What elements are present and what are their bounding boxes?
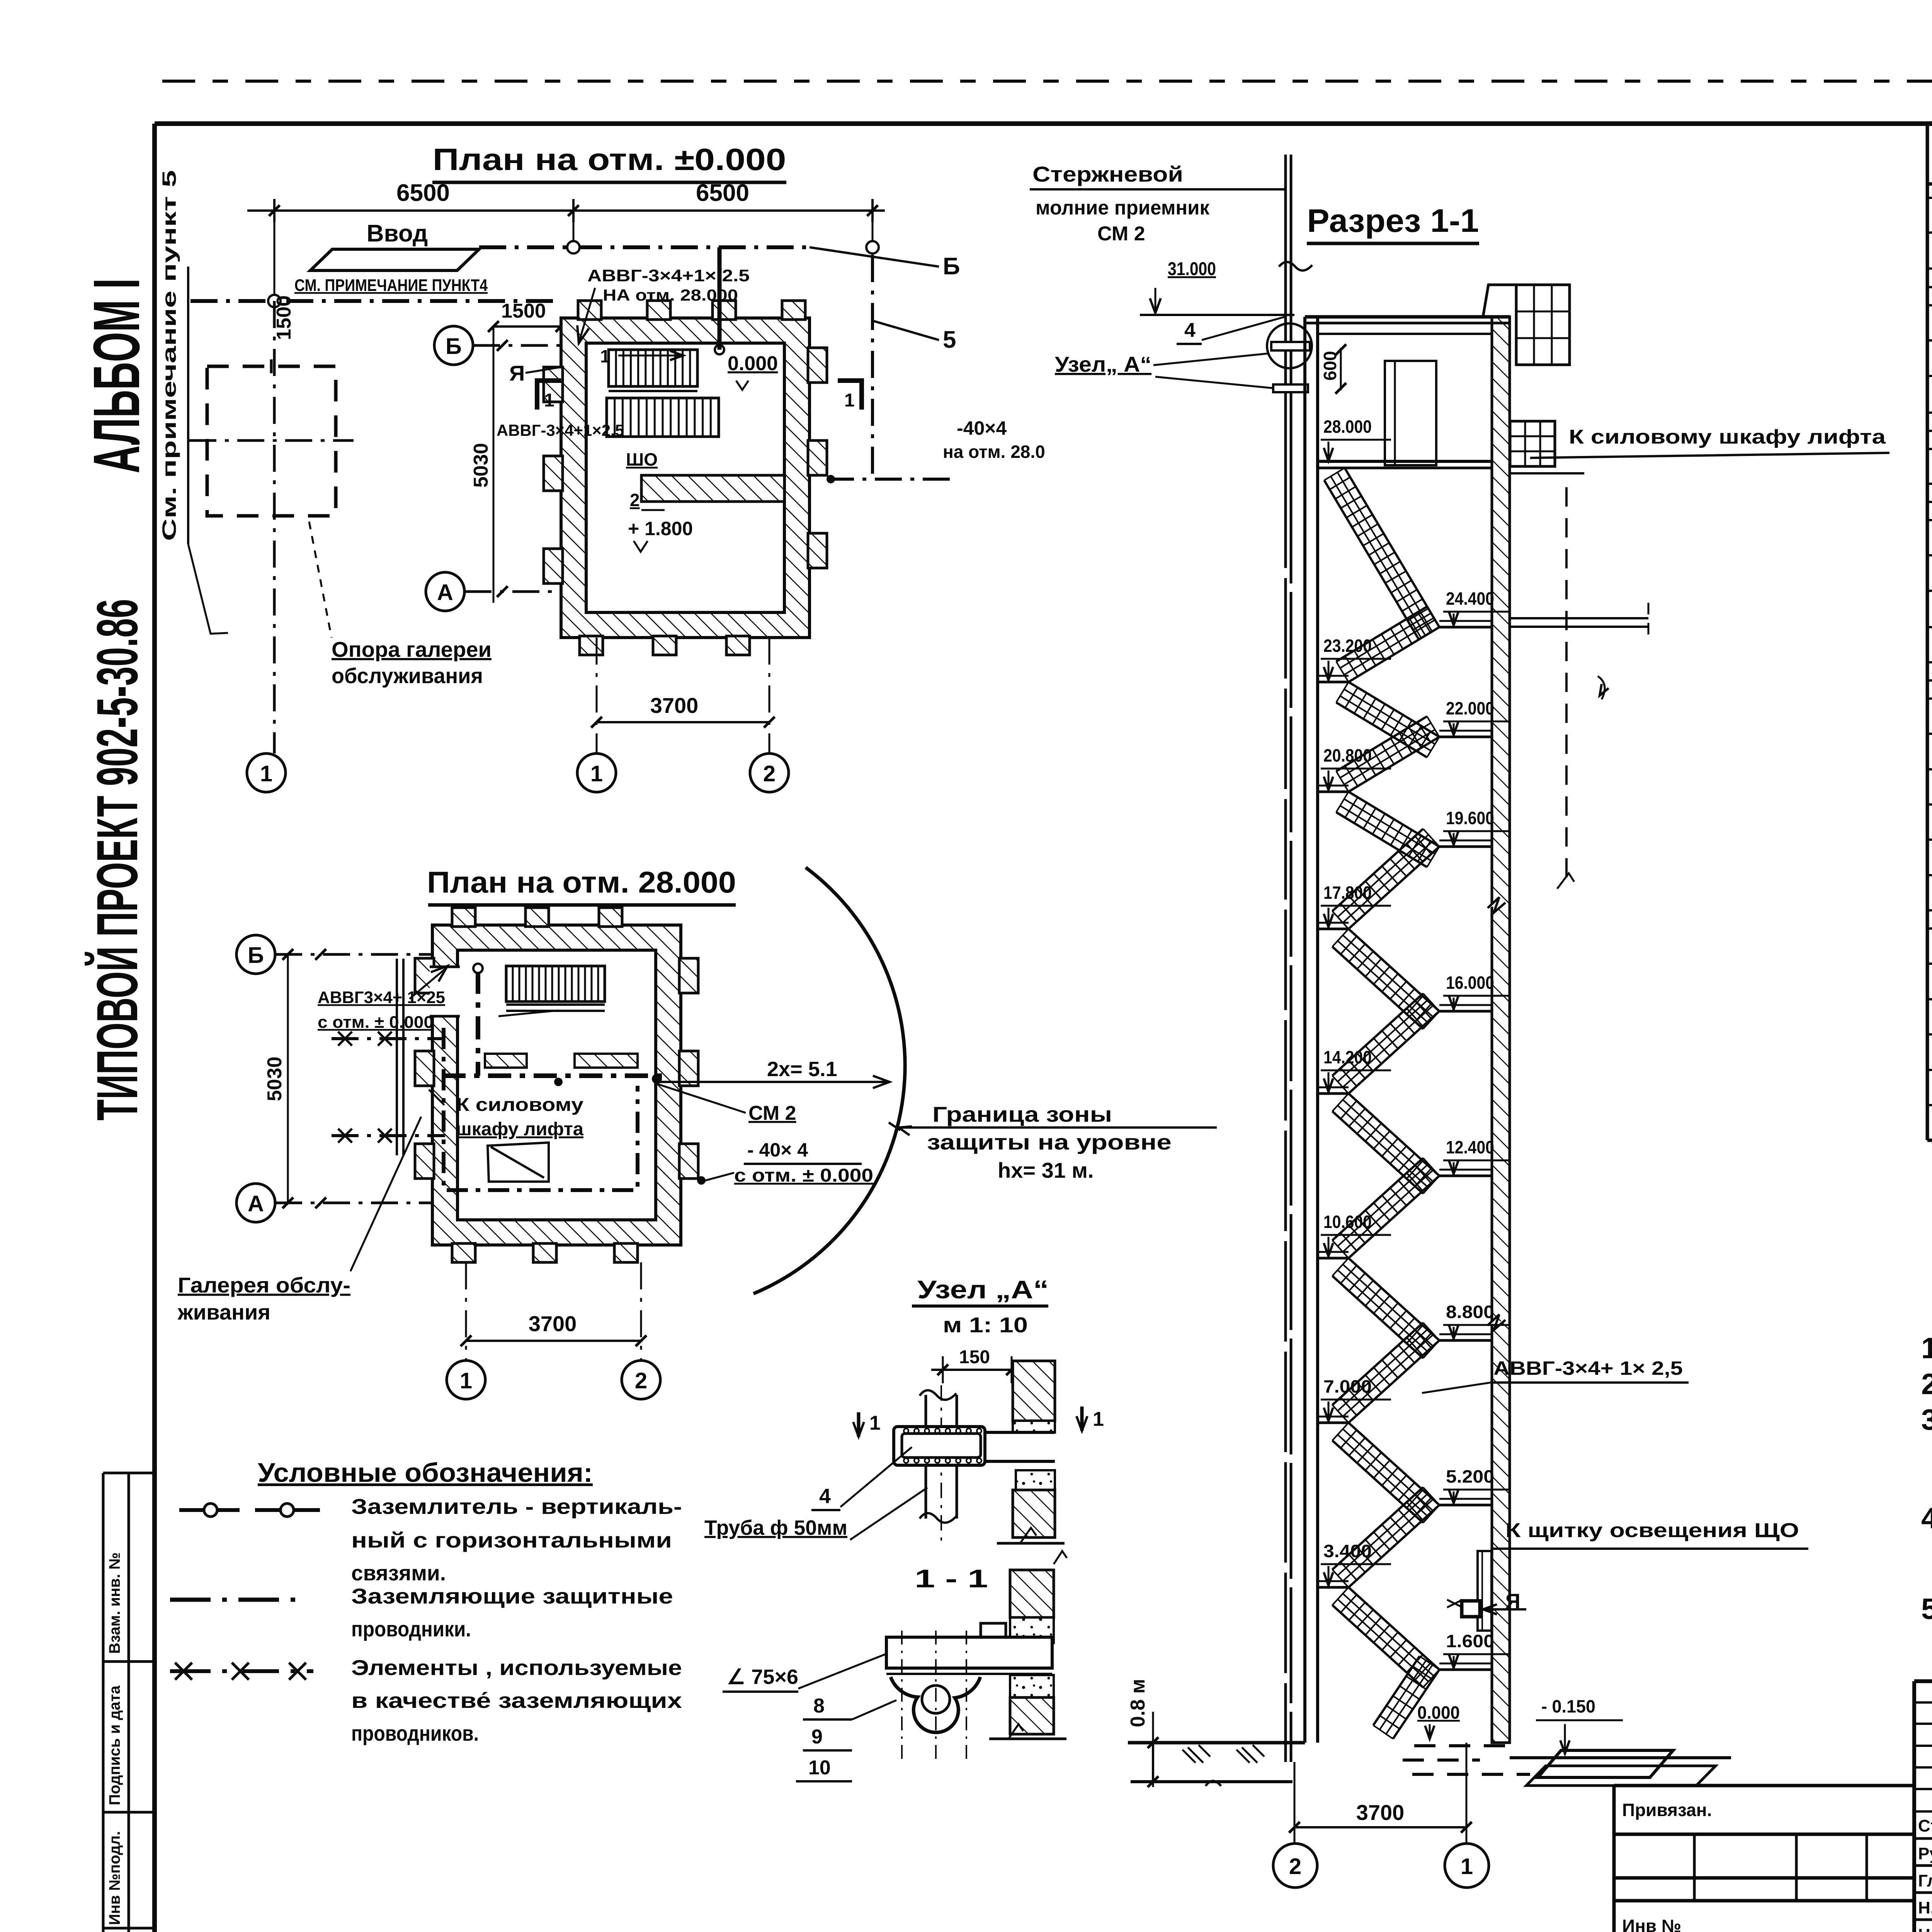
plan2 bottom dim 3700 <box>465 1262 467 1361</box>
svg-text:1: 1 <box>600 346 610 366</box>
uzel A slab <box>894 1432 1055 1461</box>
svg-text:Опора галереи: Опора галереи <box>332 637 492 662</box>
roof top grid <box>1516 285 1570 365</box>
section cut marks plan1 <box>537 381 561 410</box>
uzel A wall top <box>1013 1361 1055 1421</box>
left margin stamp boxes <box>103 1473 155 1932</box>
svg-text:Условные обозначения:: Условные обозначения: <box>258 1458 593 1488</box>
roof parapet right <box>1483 285 1516 317</box>
svg-text:Стержневой: Стержневой <box>1032 162 1183 186</box>
svg-text:24.400: 24.400 <box>1446 588 1494 609</box>
svg-text:Взам. инв. №: Взам. инв. № <box>106 1553 123 1654</box>
fill-in parallelogram near title block <box>1538 1750 1673 1777</box>
svg-text:СМ. ПРИМЕЧАНИЕ ПУНКТ4: СМ. ПРИМЕЧАНИЕ ПУНКТ4 <box>294 276 488 295</box>
svg-text:защиты на уровне: защиты на уровне <box>927 1130 1172 1154</box>
svg-text:4.: 4. <box>1921 1502 1932 1535</box>
stairs <box>1324 468 1439 639</box>
svg-text:17.800: 17.800 <box>1323 883 1372 903</box>
svg-text:∠ 75×6: ∠ 75×6 <box>727 1665 798 1689</box>
svg-text:- 40× 4: - 40× 4 <box>747 1139 808 1161</box>
svg-text:Рук. гр.: Рук. гр. <box>1918 1844 1932 1863</box>
svg-text:1: 1 <box>544 390 554 411</box>
axis circles B A plan1 <box>434 326 473 365</box>
svg-text:2: 2 <box>630 490 640 510</box>
svg-text:4: 4 <box>819 1485 831 1508</box>
svg-text:1: 1 <box>460 1368 472 1393</box>
vvod axis dash-dot over building <box>479 245 810 249</box>
svg-text:5: 5 <box>943 327 956 353</box>
building plan 28.000 <box>432 925 681 1245</box>
elevator shaft top <box>1385 361 1436 465</box>
svg-text:-40×4: -40×4 <box>957 417 1007 439</box>
gallery 28.000 right grid <box>1510 421 1555 466</box>
uzel A pipe <box>925 1395 927 1519</box>
plan2 gallery door opening in left wall <box>430 967 460 1016</box>
svg-text:Узел„ А“: Узел„ А“ <box>1055 352 1151 376</box>
svg-text:м 1: 10: м 1: 10 <box>943 1313 1028 1337</box>
svg-text:5030: 5030 <box>470 443 492 488</box>
svg-text:9: 9 <box>811 1726 823 1748</box>
1-1 wall top <box>1010 1570 1054 1617</box>
svg-text:А: А <box>437 580 453 605</box>
uzel A callout circle <box>1267 323 1312 368</box>
svg-text:28.000: 28.000 <box>1323 417 1372 437</box>
svg-text:План на отм. ±0.000: План на отм. ±0.000 <box>433 142 786 177</box>
uzel A clamp plate <box>894 1427 985 1465</box>
1-1 centerlines <box>901 1631 903 1762</box>
svg-text:- 0.150: - 0.150 <box>1541 1696 1595 1716</box>
svg-text:23.200: 23.200 <box>1323 636 1372 656</box>
uzel A wall bottom <box>1016 1470 1055 1490</box>
svg-text:hx= 31 м.: hx= 31 м. <box>998 1158 1094 1182</box>
svg-text:шкафу лифта: шкафу лифта <box>456 1119 583 1139</box>
floor 28.000 <box>1318 460 1492 463</box>
plan 0.000 top dimension 6500+6500 <box>247 209 885 212</box>
legend row2 symbol <box>170 1598 306 1602</box>
plan1 stair flight upper <box>609 350 697 386</box>
svg-text:АЛЬБОМ I: АЛЬБОМ I <box>80 278 153 473</box>
svg-text:1500: 1500 <box>273 295 295 340</box>
svg-text:СМ 2: СМ 2 <box>748 1102 796 1124</box>
svg-text:К силовому шкафу лифта: К силовому шкафу лифта <box>1569 426 1886 448</box>
svg-text:2: 2 <box>1289 1854 1301 1879</box>
axis circles bottom-left <box>247 753 286 792</box>
svg-text:Инв №подл.: Инв №подл. <box>106 1831 123 1925</box>
ground hatch left <box>1182 1745 1210 1763</box>
plan1 stair flight lower <box>607 398 719 437</box>
svg-text:Ввод: Ввод <box>367 220 428 247</box>
svg-text:3.: 3. <box>1921 1403 1932 1436</box>
plan2 interior partition <box>485 1054 527 1068</box>
svg-text:СМ 2: СМ 2 <box>1097 223 1145 245</box>
svg-text:Привязан.: Привязан. <box>1622 1800 1712 1820</box>
svg-text:5.200: 5.200 <box>1446 1466 1494 1486</box>
1-1 wall bottom <box>1010 1675 1054 1697</box>
svg-text:1500: 1500 <box>501 300 546 322</box>
svg-text:7.000: 7.000 <box>1323 1376 1372 1396</box>
lightning rod <box>1284 155 1287 468</box>
svg-text:План на отм. 28.000: План на отм. 28.000 <box>427 865 736 899</box>
svg-text:Н. контр: Н. контр <box>1918 1898 1932 1917</box>
svg-text:0.000: 0.000 <box>728 352 778 375</box>
svg-text:Элементы , используемые: Элементы , используемые <box>351 1655 682 1680</box>
svg-text:5030: 5030 <box>264 1056 286 1101</box>
svg-text:проводников.: проводников. <box>351 1721 479 1745</box>
svg-text:5.: 5. <box>1921 1593 1932 1626</box>
svg-text:См. примечание пункт 5: См. примечание пункт 5 <box>158 170 180 541</box>
svg-text:1 - 1: 1 - 1 <box>915 1564 988 1593</box>
svg-text:1: 1 <box>844 390 855 411</box>
svg-text:+ 1.800: + 1.800 <box>628 518 693 539</box>
uzel A section marks 1 <box>857 1412 861 1437</box>
svg-text:ТИПОВОЙ ПРОЕКТ 902-5-30.86: ТИПОВОЙ ПРОЕКТ 902-5-30.86 <box>84 599 150 1121</box>
protection zone arc <box>753 867 905 1294</box>
svg-text:Я: Я <box>509 361 525 385</box>
ShO panel riser <box>1478 1551 1492 1631</box>
svg-text:АВВГ-3×4+1×2.5: АВВГ-3×4+1×2.5 <box>497 421 624 439</box>
svg-text:10.600: 10.600 <box>1323 1212 1372 1232</box>
svg-text:Узел „А“: Узел „А“ <box>917 1275 1049 1304</box>
1-1 angle plate <box>981 1623 1006 1637</box>
svg-text:Ст. инж.: Ст. инж. <box>1918 1816 1932 1835</box>
svg-text:Б: Б <box>248 943 264 968</box>
plan1 inner partition <box>641 475 784 502</box>
svg-text:3700: 3700 <box>650 693 699 718</box>
svg-text:Подпись и дата: Подпись и дата <box>106 1685 123 1805</box>
privyazan box <box>1614 1786 1914 1932</box>
legend row3 symbol <box>170 1669 313 1673</box>
tower right wall hatched <box>1492 317 1510 1743</box>
svg-text:1: 1 <box>1093 1408 1104 1430</box>
right wall break marks <box>1488 897 1505 1330</box>
svg-text:1: 1 <box>1461 1854 1473 1879</box>
ground <box>1128 1741 1305 1745</box>
svg-text:проводники.: проводники. <box>351 1617 471 1641</box>
svg-text:А: А <box>248 1191 264 1216</box>
plan2 ground loop inside <box>444 1028 638 1190</box>
svg-text:4: 4 <box>1184 319 1196 342</box>
svg-text:ный с горизонтальными: ный с горизонтальными <box>351 1528 672 1552</box>
svg-text:связями.: связями. <box>351 1561 446 1585</box>
ground loop dash-dot to building <box>190 299 561 303</box>
svg-text:12.400: 12.400 <box>1446 1137 1494 1157</box>
svg-text:2х= 5.1: 2х= 5.1 <box>767 1058 837 1081</box>
plan2 axis circles <box>236 935 275 974</box>
svg-text:8: 8 <box>813 1695 825 1717</box>
svg-text:6500: 6500 <box>696 180 749 206</box>
svg-text:2: 2 <box>635 1368 647 1393</box>
svg-text:0.000: 0.000 <box>1417 1702 1460 1723</box>
svg-text:31.000: 31.000 <box>1168 259 1216 279</box>
tower bottom dim 3700 <box>1294 1762 1296 1844</box>
svg-text:Граница зоны: Граница зоны <box>932 1102 1112 1126</box>
svg-text:с отм. ± 0.000: с отм. ± 0.000 <box>734 1165 873 1186</box>
svg-text:обслуживания: обслуживания <box>332 663 483 688</box>
sheet top dashed edge <box>162 80 1932 83</box>
svg-text:16.000: 16.000 <box>1446 973 1494 993</box>
svg-text:20.800: 20.800 <box>1323 745 1372 765</box>
svg-text:0.8 м: 0.8 м <box>1127 1679 1149 1727</box>
svg-text:с отм. ± 0.000: с отм. ± 0.000 <box>318 1013 434 1032</box>
svg-text:АВВГ-3×4+ 1× 2,5: АВВГ-3×4+ 1× 2,5 <box>1493 1357 1683 1379</box>
bottom dim 3700 plan1 <box>596 638 598 753</box>
parts list table <box>1926 124 1929 1140</box>
svg-text:Разрез 1-1: Разрез 1-1 <box>1307 202 1479 239</box>
svg-text:Инв №: Инв № <box>1622 1916 1681 1932</box>
dashed boundary right <box>1565 487 1568 885</box>
svg-text:1.: 1. <box>1921 1332 1932 1365</box>
svg-text:Заземлитель - вертикаль-: Заземлитель - вертикаль- <box>351 1494 682 1519</box>
svg-text:2: 2 <box>763 761 776 786</box>
svg-text:14.200: 14.200 <box>1323 1047 1372 1067</box>
Ya box <box>1462 1601 1480 1617</box>
svg-text:Гл. спец.: Гл. спец. <box>1918 1871 1932 1890</box>
signature grid <box>1914 1681 1932 1932</box>
plan2 inner rect detail <box>488 1143 549 1182</box>
svg-text:22.000: 22.000 <box>1446 698 1494 718</box>
svg-text:Труба ф 50мм: Труба ф 50мм <box>704 1516 847 1539</box>
plan1 cable vertical <box>718 247 722 350</box>
svg-text:6500: 6500 <box>396 180 450 206</box>
svg-text:8.800: 8.800 <box>1446 1302 1494 1322</box>
svg-text:10: 10 <box>808 1757 831 1779</box>
svg-text:молние приемник: молние приемник <box>1036 197 1210 219</box>
1-1 omega clamp <box>891 1677 980 1733</box>
svg-text:АВВГ3×4+ 1×25: АВВГ3×4+ 1×25 <box>318 988 445 1007</box>
svg-text:Галерея обслу-: Галерея обслу- <box>178 1273 350 1297</box>
svg-text:живания: живания <box>177 1300 270 1324</box>
svg-text:Заземляющие защитные: Заземляющие защитные <box>351 1584 673 1608</box>
foundation below <box>1284 1743 1287 1762</box>
right side leaders -40x4 <box>827 478 957 481</box>
svg-text:1: 1 <box>869 1412 881 1434</box>
svg-text:1.600: 1.600 <box>1446 1631 1494 1651</box>
svg-text:3700: 3700 <box>529 1311 577 1336</box>
legend row1 symbol <box>179 1508 240 1512</box>
svg-text:Нач. отд.: Нач. отд. <box>1918 1925 1932 1932</box>
svg-text:К щитку освещения ЩО: К щитку освещения ЩО <box>1505 1519 1799 1542</box>
plan2 gallery lines <box>332 1037 445 1040</box>
plan2 stair hatch <box>506 966 605 1002</box>
svg-text:1: 1 <box>260 761 272 786</box>
svg-text:3.400: 3.400 <box>1323 1541 1372 1561</box>
tower left wall <box>1303 317 1306 1743</box>
opora dashed square <box>207 366 336 516</box>
svg-text:АВВГ-3×4+1× 2.5: АВВГ-3×4+1× 2.5 <box>587 266 750 285</box>
drawing frame <box>155 121 1932 126</box>
svg-text:150: 150 <box>959 1347 990 1367</box>
svg-text:19.600: 19.600 <box>1446 808 1494 828</box>
svg-text:Б: Б <box>446 334 462 359</box>
building plan 0.000 <box>561 318 810 638</box>
plan2 cable polyline <box>442 971 667 1076</box>
svg-text:3700: 3700 <box>1356 1800 1405 1825</box>
svg-text:ШО: ШО <box>626 449 658 469</box>
svg-text:600: 600 <box>1320 351 1340 381</box>
tower roof <box>1305 315 1510 319</box>
svg-text:на отм. 28.0: на отм. 28.0 <box>943 442 1045 462</box>
svg-text:Б: Б <box>943 253 960 280</box>
svg-text:НА отм. 28.000: НА отм. 28.000 <box>603 286 738 304</box>
rod brackets <box>1271 342 1310 350</box>
vertical axis line to marker 1 <box>273 301 276 753</box>
svg-text:2.: 2. <box>1921 1368 1932 1401</box>
svg-text:К силовому: К силовому <box>456 1095 583 1115</box>
svg-text:в качестве́ заземляющих: в качестве́ заземляющих <box>351 1688 682 1713</box>
svg-text:1: 1 <box>590 761 603 786</box>
right platform 24.4 <box>1510 617 1648 619</box>
landings <box>1318 681 1349 684</box>
